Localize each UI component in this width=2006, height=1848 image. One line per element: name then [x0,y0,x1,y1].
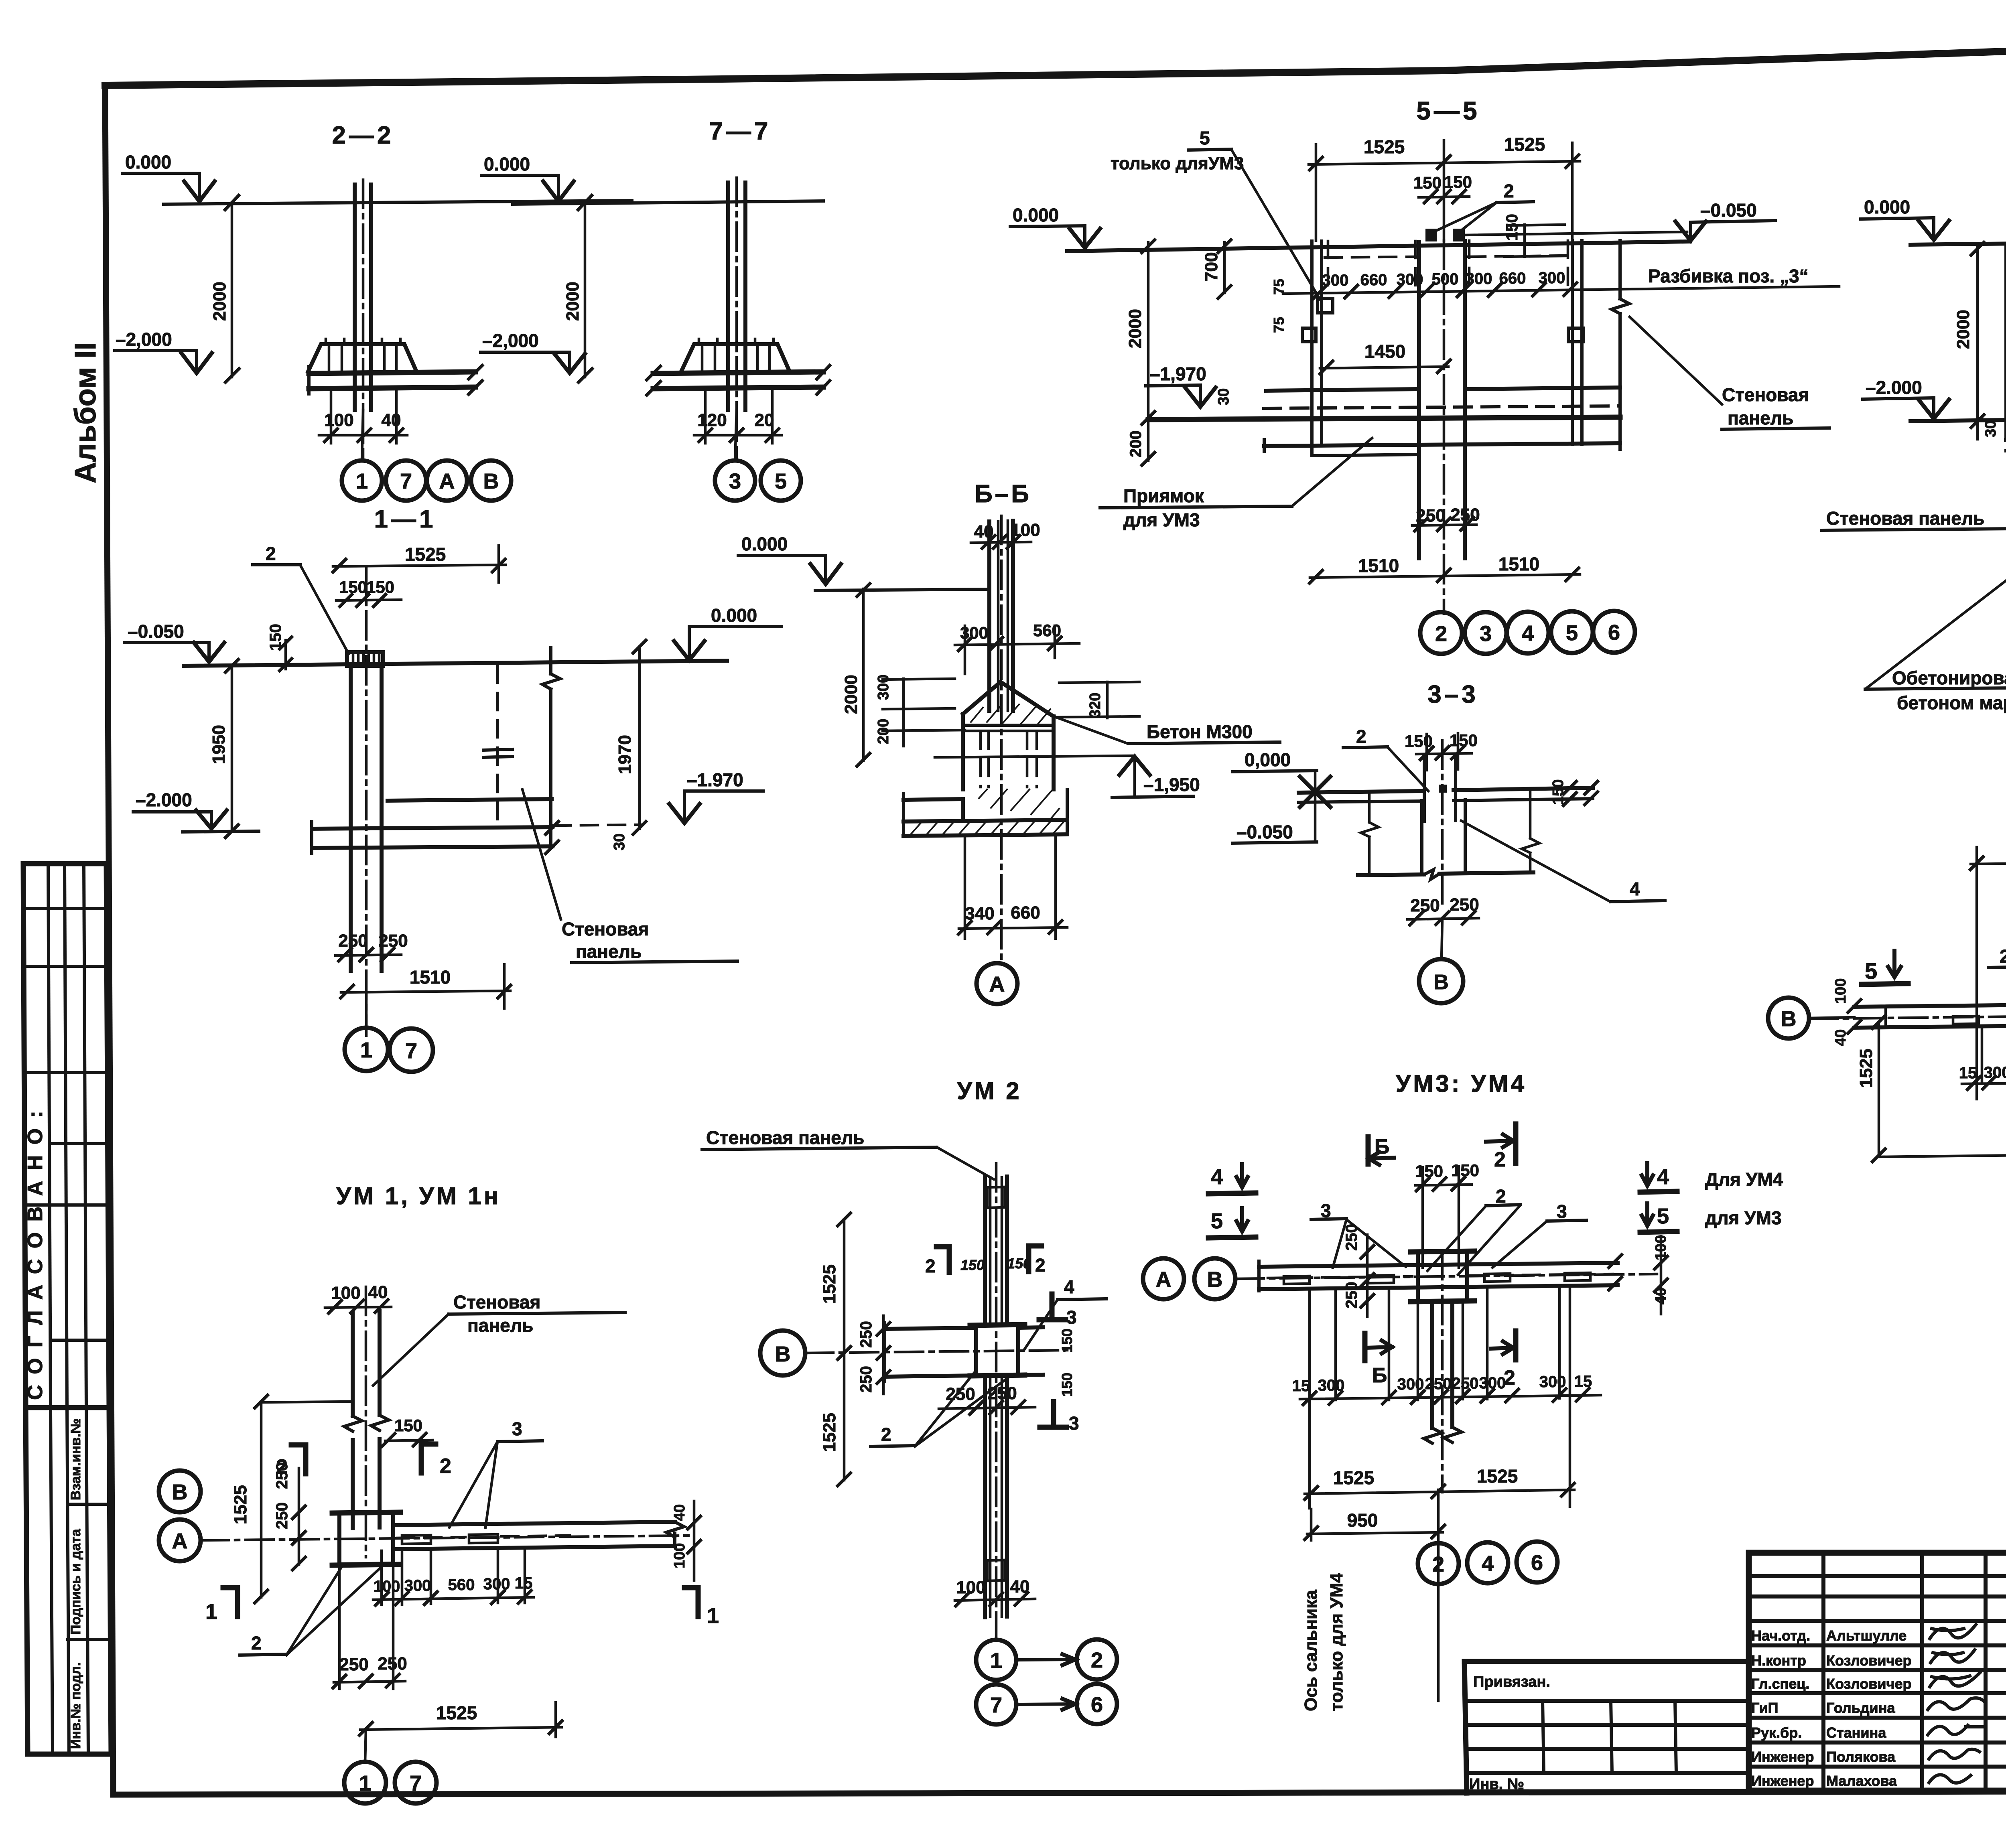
svg-text:Инженер: Инженер [1751,1749,1814,1765]
dimension 2000 [584,203,587,377]
pit below slab [1312,445,1419,456]
svg-text:1525: 1525 [1856,1049,1876,1088]
svg-text:только для УМ4: только для УМ4 [1327,1573,1346,1711]
svg-text:1525: 1525 [1364,136,1405,157]
bottom border [113,1791,2006,1795]
axis circles 2 4 6 [1418,1543,1459,1584]
svg-text:1950: 1950 [209,725,229,764]
dimension 2000 [862,589,865,761]
svg-text:для УМ3: для УМ3 [1705,1207,1782,1228]
svg-text:Альтшулле: Альтшулле [1826,1627,1907,1644]
svg-text:700: 700 [1202,252,1221,282]
svg-text:В: В [1207,1268,1223,1292]
svg-text:1: 1 [205,1600,217,1624]
svg-text:7: 7 [410,1771,422,1795]
sidebar lower block [26,1408,111,1754]
svg-text:250: 250 [273,1462,291,1489]
axis circle А [977,963,1017,1004]
svg-text:100: 100 [1832,978,1849,1004]
svg-text:30: 30 [1215,388,1232,405]
svg-text:Козловичер: Козловичер [1826,1676,1911,1692]
svg-text:3: 3 [512,1418,522,1439]
svg-text:320: 320 [1087,693,1104,718]
base slab [309,372,475,373]
svg-text:2: 2 [1435,622,1447,646]
column wall stem [728,183,745,410]
section marks 4 5 right with labels [1642,1163,1653,1186]
svg-text:5: 5 [1211,1209,1223,1233]
svg-text:–0.050: –0.050 [1700,200,1757,221]
svg-text:5: 5 [1566,621,1578,645]
svg-text:1: 1 [990,1649,1002,1673]
svg-text:150: 150 [366,578,394,596]
svg-text:300: 300 [1397,1375,1424,1393]
top border [105,35,2006,85]
svg-text:А: А [1156,1268,1172,1292]
svg-text:1525: 1525 [1477,1466,1518,1487]
svg-text:300: 300 [1539,1373,1566,1391]
svg-text:250: 250 [339,1655,368,1674]
svg-text:Альбом II: Альбом II [69,342,102,483]
svg-text:2000: 2000 [1953,310,1973,349]
svg-text:бетоном марки 300: бетоном марки 300 [1897,692,2006,713]
svg-text:–0.050: –0.050 [1236,822,1293,842]
svg-text:150: 150 [1444,172,1472,191]
svg-text:2—2: 2—2 [332,122,394,149]
svg-text:В: В [1433,971,1449,994]
svg-text:3–3: 3–3 [1427,681,1478,708]
top level line -0.050 [184,661,727,666]
svg-text:1—1: 1—1 [374,505,437,533]
svg-text:3: 3 [729,469,741,493]
floor line -2.000 [1911,419,2006,421]
dimension 2000 vertical [231,203,233,377]
svg-text:А: А [439,469,455,493]
svg-text:Разбивка поз. „3“: Разбивка поз. „3“ [1648,266,1809,286]
svg-text:Подпись и дата: Подпись и дата [68,1528,83,1635]
svg-text:2: 2 [1356,726,1366,747]
base slab [653,372,823,373]
svg-text:Козловичер: Козловичер [1826,1652,1911,1669]
wall panel end cap [347,652,383,666]
column stub below [1432,1301,1452,1428]
slab lines [1299,791,1422,793]
svg-text:УМ 1, УМ 1н: УМ 1, УМ 1н [336,1183,501,1209]
bottom line [1358,872,1533,875]
svg-text:Взам.инв.№: Взам.инв.№ [68,1418,83,1500]
svg-text:1525: 1525 [820,1413,839,1452]
column wall stem [355,185,371,410]
axis circles А В [1143,1258,1184,1299]
svg-text:4: 4 [1522,621,1534,645]
horizontal wall band [393,1522,675,1525]
foundation footing [308,344,416,371]
svg-text:250: 250 [1452,1375,1479,1392]
svg-text:1: 1 [356,469,368,493]
svg-text:Стеновая: Стеновая [453,1292,540,1312]
svg-text:15: 15 [1959,1064,1977,1082]
svg-text:Обетонировать: Обетонировать [1892,667,2006,688]
axis circles 2 3 4 5 6 [1420,612,1462,654]
svg-text:40: 40 [671,1504,688,1521]
svg-text:для УМ3: для УМ3 [1123,509,1200,530]
svg-text:–1,970: –1,970 [1150,363,1206,384]
Привязан box [1464,1661,1749,1793]
svg-text:В: В [775,1342,791,1366]
svg-text:В: В [172,1480,188,1504]
svg-text:250: 250 [273,1502,291,1529]
wall [351,666,382,971]
column stub with marker 2 [1424,757,1456,822]
elevation -1.950 [935,756,1135,757]
svg-text:–1,950: –1,950 [1143,774,1200,795]
svg-text:15: 15 [1292,1377,1310,1395]
svg-text:75: 75 [1271,317,1287,333]
svg-text:Стеновая панель: Стеновая панель [706,1127,864,1148]
svg-text:1525: 1525 [405,544,446,565]
svg-text:Инженер: Инженер [1751,1773,1814,1789]
svg-text:250: 250 [1410,896,1440,915]
interior floor -1.970 [388,799,552,801]
svg-text:250: 250 [857,1321,875,1348]
svg-text:0.000: 0.000 [125,152,171,172]
axis circle В [1442,920,1442,959]
axis circles 1 7 [365,992,368,1028]
svg-text:Гольдина: Гольдина [1826,1700,1895,1716]
svg-text:100: 100 [671,1543,688,1568]
svg-text:С О Г Л А С О В А Н О :: С О Г Л А С О В А Н О : [24,1108,47,1400]
wall band plan [1854,1002,2006,1007]
lower walls [1422,800,1465,874]
signature table [1749,1574,2006,1578]
svg-text:4: 4 [1211,1165,1223,1189]
hidden joint line [496,666,499,826]
svg-text:Полякова: Полякова [1826,1749,1896,1765]
svg-text:150: 150 [1503,214,1521,241]
svg-text:4: 4 [1064,1276,1074,1297]
svg-text:1: 1 [359,1771,371,1795]
axis circle В [760,1331,805,1375]
svg-text:Привязан.: Привязан. [1473,1674,1550,1690]
anchor bolts dashed [981,732,1037,787]
svg-text:УМ3: УМ4: УМ3: УМ4 [1396,1070,1527,1097]
LEFT SIDEBAR TABLES [23,864,111,1754]
svg-text:Гл.спец.: Гл.спец. [1751,1676,1809,1692]
top slab line [1911,239,2006,245]
svg-text:2: 2 [1035,1255,1046,1276]
svg-text:2: 2 [1494,1148,1506,1171]
svg-text:В: В [1781,1007,1797,1031]
svg-text:В: В [483,469,499,493]
right wall face [549,647,552,847]
corner square [339,1512,393,1564]
panel joints [1953,1013,2006,1024]
svg-text:150: 150 [1059,1373,1075,1397]
svg-text:40: 40 [368,1282,388,1302]
svg-text:Бетон М300: Бетон М300 [1147,721,1253,742]
section marks 7 7 [1879,1155,2006,1157]
svg-text:1525: 1525 [436,1702,477,1723]
svg-text:2000: 2000 [1125,309,1145,348]
svg-text:2: 2 [251,1633,262,1653]
vertical wall band [985,1177,1007,1325]
svg-text:5: 5 [1657,1204,1669,1228]
svg-text:1: 1 [707,1604,719,1628]
svg-text:1510: 1510 [1498,554,1539,574]
svg-text:5: 5 [775,469,787,493]
svg-text:1: 1 [360,1038,372,1062]
svg-text:950: 950 [1347,1510,1378,1531]
svg-text:1970: 1970 [615,735,635,774]
svg-text:А: А [989,972,1005,996]
svg-text:Б: Б [1372,1364,1387,1387]
svg-text:0.000: 0.000 [1013,205,1059,225]
svg-text:2000: 2000 [210,282,229,321]
svg-text:7—7: 7—7 [709,118,772,145]
level line 0.000 [164,201,632,204]
svg-text:Рук.бр.: Рук.бр. [1751,1724,1802,1741]
svg-text:5—5: 5—5 [1416,96,1480,125]
weld plates [1302,298,1584,342]
svg-text:УМ 2: УМ 2 [957,1077,1021,1104]
svg-text:100: 100 [324,410,353,430]
svg-text:40: 40 [382,410,401,430]
central square [976,1325,1018,1376]
svg-text:Инв.№ подл.: Инв.№ подл. [68,1662,83,1749]
outer box [1749,1553,2006,1791]
TITLE BLOCK [1464,1553,2006,1793]
svg-text:100: 100 [1011,520,1040,540]
svg-text:1510: 1510 [410,967,451,988]
svg-text:7: 7 [405,1039,417,1063]
svg-text:1510: 1510 [1358,555,1399,576]
svg-text:250: 250 [1416,506,1445,525]
svg-text:0.000: 0.000 [711,605,757,626]
svg-text:–2,000: –2,000 [482,330,539,351]
svg-text:Стеновая: Стеновая [1722,384,1809,405]
footing [681,344,790,371]
svg-text:Ось сальника: Ось сальника [1301,1590,1321,1711]
svg-text:2: 2 [266,543,276,564]
svg-text:ГиП: ГиП [1751,1700,1779,1716]
svg-text:2000: 2000 [563,282,583,321]
footing gable [963,682,1054,716]
svg-text:1525: 1525 [231,1485,250,1524]
svg-text:–0.050: –0.050 [128,621,184,642]
vertical wall column [353,1311,380,1416]
svg-text:1525: 1525 [1504,134,1545,155]
svg-text:1450: 1450 [1364,341,1405,362]
svg-text:2000: 2000 [841,675,861,714]
svg-text:Малахова: Малахова [1826,1773,1897,1789]
svg-text:6: 6 [1531,1551,1543,1575]
svg-text:5: 5 [1200,128,1210,148]
svg-text:4: 4 [1630,878,1640,899]
svg-text:250: 250 [1343,1282,1360,1308]
svg-text:7: 7 [990,1693,1002,1717]
dashed base line [1264,406,1620,408]
svg-text:2: 2 [1432,1552,1444,1576]
base slab bottom [1264,443,1620,446]
axis circles В А [159,1471,201,1512]
svg-text:Стеновая: Стеновая [562,919,649,939]
svg-text:А: А [172,1529,188,1553]
level line [815,589,989,590]
svg-text:Нач.отд.: Нач.отд. [1751,1627,1810,1644]
bottom slab [312,827,552,829]
svg-text:2: 2 [1504,181,1514,201]
svg-text:2: 2 [925,1256,936,1276]
level line [513,201,823,204]
svg-text:2: 2 [440,1454,451,1478]
Разбивка поз 3 line [1283,286,1839,294]
left border [105,85,113,1795]
svg-text:4: 4 [1482,1552,1494,1576]
svg-text:2: 2 [881,1424,891,1445]
svg-text:–2.000: –2.000 [1866,377,1922,398]
svg-text:Приямок: Приямок [1123,485,1204,506]
svg-text:100: 100 [956,1578,985,1597]
link circles 1-2 7-6 [976,1640,1016,1680]
svg-text:1525: 1525 [820,1264,839,1304]
svg-text:Для УМ4: Для УМ4 [1705,1169,1783,1190]
svg-text:150: 150 [1405,732,1433,751]
svg-text:–1.970: –1.970 [687,769,743,790]
svg-text:75: 75 [1271,279,1287,295]
svg-text:2: 2 [1496,1186,1506,1207]
svg-text:560: 560 [1033,621,1061,640]
svg-text:660: 660 [1360,271,1387,289]
svg-text:Н.контр: Н.контр [1751,1652,1806,1669]
svg-text:3: 3 [1480,622,1492,646]
svg-text:3: 3 [1557,1201,1567,1222]
svg-text:–2.000: –2.000 [136,789,192,810]
panel stubs above slab [1425,229,1437,241]
svg-text:660: 660 [1499,270,1526,287]
svg-text:панель: панель [1728,408,1793,428]
central square [1418,1251,1467,1302]
left wall [2004,244,2006,439]
heavy -2.000 base line [1148,417,1620,420]
column [989,521,1013,711]
signatures squiggles [1930,1625,1976,1639]
axis circle В [1768,998,1809,1039]
svg-text:250: 250 [1450,505,1480,525]
svg-text:660: 660 [1011,903,1040,923]
svg-text:0.000: 0.000 [741,534,788,554]
svg-text:2: 2 [1091,1648,1103,1672]
svg-text:Стеновая панель: Стеновая панель [1826,508,1984,529]
svg-text:только дляУМ3: только дляУМ3 [1111,154,1244,173]
axis circles 1 7 [365,1730,366,1762]
horizontal wall band [885,1328,976,1329]
svg-text:0,000: 0,000 [1245,749,1291,770]
svg-text:250: 250 [1343,1224,1360,1251]
svg-text:150: 150 [1059,1329,1075,1353]
svg-text:3: 3 [1069,1413,1079,1434]
svg-text:4: 4 [1657,1165,1669,1189]
svg-text:0.000: 0.000 [484,154,530,174]
svg-text:560: 560 [448,1576,475,1594]
wall band plan [1259,1263,1618,1267]
svg-text:1525: 1525 [1333,1467,1374,1488]
axis circles 1 7 А В [362,410,363,460]
svg-text:5: 5 [1865,958,1877,984]
svg-text:6: 6 [1608,621,1620,645]
svg-text:150: 150 [960,1257,985,1273]
svg-text:2: 2 [2000,946,2006,967]
svg-text:100: 100 [331,1283,360,1303]
axis circles 3 5 [735,410,737,460]
svg-text:0.000: 0.000 [1864,197,1910,217]
wall verticals [1312,241,1322,445]
svg-text:150: 150 [394,1416,422,1435]
svg-text:6: 6 [1091,1693,1103,1717]
svg-text:250: 250 [857,1366,875,1393]
svg-text:340: 340 [965,904,994,923]
svg-text:–2,000: –2,000 [116,329,172,350]
svg-text:200: 200 [1127,430,1145,457]
svg-text:Б–Б: Б–Б [975,480,1031,508]
svg-text:30: 30 [611,834,628,850]
interior floor [1266,387,1620,391]
svg-text:панель: панель [467,1315,533,1336]
sidebar upper block [23,864,109,1408]
svg-text:30: 30 [1982,420,1999,437]
pit floor step [904,799,963,821]
svg-text:Станина: Станина [1826,1724,1886,1741]
svg-text:40: 40 [1832,1029,1849,1046]
svg-text:панель: панель [576,941,642,962]
top slab line [1067,241,1690,251]
svg-text:Инв. №: Инв. № [1469,1776,1524,1793]
dashed panel bottoms [1325,256,1569,258]
svg-text:7: 7 [400,469,412,493]
